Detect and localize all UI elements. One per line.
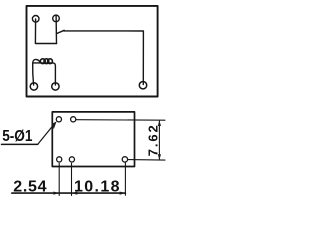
extension line 7.62 bottom — [128, 159, 165, 162]
extension line bottom 2 — [71, 163, 73, 195]
coil pin right circle — [52, 83, 59, 90]
svg-text:10.18: 10.18 — [74, 179, 120, 196]
coil baseline — [34, 62, 53, 64]
extension line bottom 1 — [58, 163, 60, 195]
leader arrowhead — [52, 121, 57, 129]
arrow 7.62 up — [158, 120, 161, 126]
svg-text:5-Ø1: 5-Ø1 — [2, 128, 32, 145]
arrow 7.62 down — [158, 154, 161, 160]
hole bottom right — [122, 157, 127, 162]
hole bottom 2 — [69, 157, 74, 162]
arrow 2.54 right — [53, 192, 59, 195]
arrow 10.18 left — [72, 192, 78, 195]
pin COM circle — [53, 15, 60, 22]
label 5-dia1 underline — [2, 143, 38, 145]
pin NO circle — [32, 15, 39, 22]
wire NO pin down and right — [35, 19, 56, 44]
footprint outline — [52, 112, 134, 167]
switch blade — [57, 30, 65, 33]
svg-text:2.54: 2.54 — [13, 179, 46, 196]
dimension line 7.62 vertical — [158, 121, 160, 159]
dimension line 2.54 — [12, 192, 72, 194]
coil left lead — [33, 59, 40, 85]
hole top 2 — [71, 117, 76, 122]
coil right lead — [53, 63, 56, 85]
arrow 10.18 right — [120, 192, 126, 195]
hole bottom 1 — [57, 157, 62, 162]
coil pin left circle — [30, 83, 37, 90]
extension line 7.62 top — [76, 119, 165, 122]
coil loop 1 — [40, 59, 45, 64]
coil loop 2 — [44, 59, 49, 64]
pin bottom-right circle — [139, 82, 146, 89]
hole top 1 — [56, 117, 61, 122]
dimension line 10.18 — [72, 192, 126, 194]
leader line to hole — [38, 124, 54, 144]
coil loop 3 — [48, 59, 53, 64]
relay outline box — [27, 6, 158, 97]
svg-text:7.62: 7.62 — [146, 125, 161, 156]
extension line bottom right — [124, 163, 126, 196]
wire COM pin down — [55, 15, 57, 43]
wire to bottom-right pin — [64, 31, 144, 85]
